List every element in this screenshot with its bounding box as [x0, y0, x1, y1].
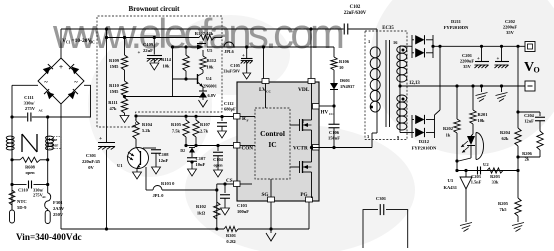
diode D102	[189, 148, 195, 153]
svg-text:1kΩ: 1kΩ	[197, 211, 206, 216]
svg-text:2N6001: 2N6001	[203, 84, 217, 89]
svg-text:C111: C111	[24, 95, 34, 100]
connector terminal L	[11, 205, 13, 210]
wire AC input left rail	[11, 85, 13, 209]
resistor R608 open	[20, 157, 40, 162]
svg-text:10: 10	[339, 65, 344, 70]
pin SG	[268, 197, 275, 202]
node C310 right	[46, 183, 49, 186]
svg-text:12,13: 12,13	[409, 81, 420, 86]
svg-text:R205: R205	[498, 201, 509, 206]
svg-text:JPL6: JPL6	[224, 49, 234, 54]
capacitor C301 bulk	[98, 142, 115, 144]
pin VDL	[308, 79, 315, 84]
wire VDL riser	[310, 29, 312, 79]
capacitor C204	[516, 110, 519, 113]
svg-text:7k5: 7k5	[499, 207, 507, 212]
wire CON internal	[240, 145, 255, 147]
resistor R110	[124, 70, 126, 81]
svg-text:1: 1	[368, 39, 370, 44]
node R608 left	[10, 158, 13, 161]
resistor R205	[515, 198, 521, 216]
svg-text:R203: R203	[490, 174, 501, 179]
ground C202	[501, 86, 503, 92]
pin PG	[306, 197, 313, 202]
capacitor C102 resonant	[343, 24, 345, 35]
node secondary phase dot upper	[402, 49, 405, 52]
node HVcc	[333, 90, 335, 125]
svg-text:IC: IC	[268, 140, 276, 149]
capacitor C108	[143, 147, 156, 149]
diode D211 dual	[411, 35, 413, 58]
node C111 right	[46, 115, 49, 118]
svg-text:1k: 1k	[446, 133, 451, 138]
svg-text:100uF: 100uF	[237, 209, 249, 214]
svg-text:C112: C112	[224, 101, 234, 106]
svg-text:VDL: VDL	[298, 87, 310, 93]
resistor R104	[134, 114, 137, 117]
wire U4 emitter feed	[172, 47, 174, 97]
svg-text:Vin=340-400Vdc: Vin=340-400Vdc	[16, 232, 82, 242]
node SG rail	[269, 227, 272, 230]
svg-text:F301: F301	[53, 200, 63, 205]
svg-text:R111: R111	[108, 100, 118, 105]
svg-text:C102: C102	[350, 5, 361, 10]
svg-text:AC: AC	[39, 109, 44, 113]
node C111 left	[10, 115, 13, 118]
svg-text:2200uF: 2200uF	[503, 25, 518, 30]
svg-text:C103: C103	[237, 203, 248, 208]
svg-text:R103 0: R103 0	[161, 181, 175, 186]
transformer center tap	[399, 82, 401, 95]
wire output - rail	[430, 85, 525, 87]
svg-text:R106: R106	[339, 59, 350, 64]
terminal Vo-	[525, 81, 535, 91]
svg-text:275V: 275V	[25, 106, 36, 111]
ground C201	[481, 86, 483, 92]
wire filter to resistor row	[11, 150, 13, 183]
svg-text:C107: C107	[196, 156, 207, 161]
svg-text:1.5nF: 1.5nF	[471, 180, 482, 185]
svg-text:SG: SG	[262, 192, 269, 198]
wire SG drop	[270, 202, 272, 229]
diode D212 dual	[411, 115, 413, 138]
svg-text:Filter: Filter	[48, 143, 59, 148]
svg-text:R107 44k: R107 44k	[195, 31, 214, 36]
wire VCTR to primary	[371, 133, 373, 148]
svg-text:10uF: 10uF	[196, 162, 206, 167]
svg-text:Line: Line	[49, 137, 58, 142]
capacitor C112	[220, 115, 223, 118]
ground C107	[188, 169, 197, 176]
bridge diode top-left	[43, 64, 53, 74]
zener diode 6.8V	[202, 87, 204, 91]
capacitor C105	[245, 45, 248, 48]
wire hop JPL6	[224, 42, 234, 47]
brownout circuit box	[97, 16, 222, 127]
wire CS internal	[240, 183, 252, 185]
svg-text:AC: AC	[42, 195, 46, 199]
svg-text:10k: 10k	[478, 118, 486, 123]
svg-text:R110: R110	[109, 83, 120, 88]
ground C103	[221, 208, 230, 215]
wire D212 riser	[439, 46, 441, 110]
svg-text:Brownout circuit: Brownout circuit	[129, 5, 181, 13]
optocoupler U2	[472, 124, 474, 134]
svg-text:2200uF: 2200uF	[460, 59, 475, 64]
capacitor C107	[191, 153, 193, 158]
svg-text:FYP2010DN: FYP2010DN	[444, 25, 469, 30]
node primary phase dot	[370, 106, 373, 109]
pin RT	[234, 114, 241, 120]
capacitor C202	[501, 46, 503, 61]
wire LVcc drop	[262, 45, 265, 48]
svg-text:O: O	[534, 66, 540, 75]
svg-text:0.2Ω: 0.2Ω	[226, 239, 236, 244]
ground primary arrow	[270, 229, 272, 233]
svg-text:R102: R102	[196, 204, 207, 209]
svg-text:C109: C109	[143, 42, 154, 47]
wire JPL0	[145, 167, 147, 190]
svg-text:220uF/45: 220uF/45	[82, 159, 101, 164]
resistor R204	[517, 46, 519, 128]
svg-text:33k: 33k	[492, 180, 499, 185]
svg-text:R201: R201	[478, 112, 489, 117]
svg-text:CC: CC	[329, 112, 334, 116]
wire bridge left vertex to left rail	[12, 84, 38, 86]
resistor R101 shunt	[224, 226, 238, 231]
optocoupler U1	[128, 148, 149, 169]
svg-text:DC: DC	[90, 41, 96, 45]
svg-text:U2: U2	[483, 162, 489, 167]
svg-text:D2: D2	[180, 149, 185, 153]
svg-text:680pF: 680pF	[224, 107, 236, 112]
resistor R111	[121, 98, 127, 113]
resistor R112	[202, 50, 204, 56]
bridge diode bottom-left	[44, 89, 54, 99]
ground zener	[202, 98, 204, 101]
transformer T1 box	[365, 31, 407, 140]
resistor R203	[487, 168, 503, 173]
svg-text:CS: CS	[226, 178, 233, 184]
svg-text:R204: R204	[500, 130, 511, 135]
svg-text:5.2k: 5.2k	[142, 128, 151, 133]
svg-text:33uF/50V: 33uF/50V	[223, 69, 240, 74]
svg-text:R114: R114	[161, 57, 172, 62]
wire RT internal	[240, 116, 255, 118]
transformer secondary lower	[399, 95, 401, 130]
resistor R102	[214, 202, 220, 219]
shunt regulator KA431	[457, 170, 518, 172]
pin LVcc	[262, 79, 269, 84]
node bus VDL riser	[309, 27, 312, 30]
svg-text:C301: C301	[376, 196, 387, 201]
svg-text:12nF: 12nF	[159, 158, 169, 163]
resistor R106b 2.7k	[194, 115, 197, 118]
capacitor C201	[481, 46, 483, 61]
ground C105	[243, 73, 251, 79]
primary ground rail	[61, 228, 224, 230]
fuse F301	[47, 185, 49, 194]
svg-text:CON: CON	[242, 146, 254, 152]
wire LVcc supply	[173, 46, 198, 48]
svg-text:R105: R105	[171, 122, 182, 127]
svg-text:1M5: 1M5	[110, 64, 119, 69]
svg-text:=10-20V: =10-20V	[72, 38, 92, 44]
svg-text:EC35: EC35	[382, 26, 394, 31]
wire divider tap to zener	[125, 96, 201, 98]
svg-text:+: +	[138, 51, 141, 56]
ground opto U1	[136, 168, 138, 172]
wire bridge bottom to ground rail	[60, 104, 62, 229]
svg-text:2A5V: 2A5V	[53, 206, 65, 211]
svg-text:6.8V: 6.8V	[208, 93, 217, 98]
wire 400V bus	[61, 28, 344, 30]
svg-text:D212: D212	[419, 139, 430, 144]
node R608 right	[46, 158, 49, 161]
svg-text:R109: R109	[109, 58, 120, 63]
capacitor C203	[477, 167, 479, 175]
wire VCTR out	[310, 146, 313, 149]
node divider top	[123, 36, 126, 39]
transistor Q-high MOSFET	[311, 83, 313, 120]
pin CON	[234, 143, 241, 149]
svg-text:250V: 250V	[53, 212, 64, 217]
svg-text:47k: 47k	[109, 106, 117, 111]
thermistor NTC 5D-9	[9, 190, 15, 205]
bridge diode bottom-right	[68, 89, 78, 99]
resistor R206	[539, 121, 541, 131]
svg-text:C202: C202	[505, 19, 516, 24]
transistor U4	[173, 78, 198, 80]
wire CON pin net	[190, 145, 233, 147]
svg-text:D601: D601	[340, 78, 351, 83]
node bus brownout tap	[105, 27, 108, 30]
resistor R109	[124, 38, 126, 56]
svg-text:HV: HV	[321, 110, 329, 116]
bridge diode top-right	[69, 64, 79, 74]
ground C112	[218, 131, 227, 138]
svg-text:D211: D211	[451, 19, 462, 24]
wire bridge right vertex loop	[32, 85, 91, 117]
svg-text:R104: R104	[142, 122, 153, 127]
capacitor C111	[27, 113, 29, 122]
svg-text:C203: C203	[471, 174, 482, 179]
svg-text:62k: 62k	[501, 136, 509, 141]
svg-text:VCTR: VCTR	[293, 146, 308, 152]
svg-text:330n/: 330n/	[24, 101, 35, 106]
svg-text:R301: R301	[226, 233, 237, 238]
capacitor C103	[224, 184, 226, 193]
pin CS	[234, 181, 241, 187]
svg-text:+: +	[99, 136, 102, 142]
wire bulk cap riser	[106, 29, 108, 142]
svg-text:PG: PG	[300, 192, 307, 198]
terminal Vo+	[525, 42, 535, 52]
svg-text:Control: Control	[260, 129, 285, 138]
svg-text:open: open	[25, 170, 35, 175]
svg-text:10k: 10k	[207, 65, 215, 70]
op-amp U6 control IC block	[237, 82, 319, 201]
ground KA431	[460, 223, 472, 226]
svg-text:R202: R202	[443, 126, 454, 131]
node divider tap	[123, 95, 126, 98]
svg-text:U1: U1	[117, 163, 123, 168]
svg-text:R112: R112	[207, 58, 218, 63]
svg-text:2.7k: 2.7k	[200, 129, 209, 134]
svg-text:R206: R206	[522, 151, 533, 156]
resistor R201	[472, 86, 474, 110]
svg-text:+: +	[59, 62, 63, 71]
transformer primary	[376, 29, 378, 47]
capacitor C401 Y-cap	[363, 210, 378, 248]
resistor R106	[333, 47, 335, 57]
svg-text:22nF/630V: 22nF/630V	[344, 11, 367, 16]
wire brownout top rail	[107, 37, 200, 39]
ground R111	[124, 113, 126, 116]
svg-text:R107: R107	[200, 122, 211, 127]
capacitor C106	[329, 123, 340, 125]
svg-text:NTC: NTC	[17, 199, 27, 204]
pin HVcc	[313, 104, 320, 110]
wire output + rail	[433, 45, 525, 47]
wire CS pin net	[217, 183, 233, 185]
svg-text:7.5k: 7.5k	[172, 129, 181, 134]
capacitor C310	[12, 184, 27, 186]
resistor R202	[456, 86, 458, 119]
node C310 left	[10, 183, 13, 186]
svg-text:FYP2010DN: FYP2010DN	[412, 146, 437, 151]
svg-text:5D-9: 5D-9	[17, 205, 27, 210]
svg-text:10k: 10k	[162, 64, 170, 69]
svg-text:22uF: 22uF	[143, 48, 153, 53]
resistor R114	[184, 45, 187, 48]
transistor Q-low MOSFET	[311, 148, 313, 163]
svg-text:0V: 0V	[88, 165, 94, 170]
svg-text:C310: C310	[18, 188, 29, 193]
resistor R105	[184, 115, 187, 118]
svg-text:C1: C1	[66, 41, 71, 45]
svg-text:JPL 0: JPL 0	[153, 193, 165, 198]
pin VCTR	[313, 145, 320, 151]
svg-text:1N4937: 1N4937	[340, 84, 355, 89]
svg-text:C108: C108	[159, 152, 170, 157]
ground C104	[214, 170, 223, 177]
resistor R107	[199, 35, 214, 40]
wire bridge top riser	[60, 29, 62, 58]
connector terminal N	[47, 209, 49, 211]
capacitor C109	[153, 36, 156, 39]
svg-text:U4: U4	[206, 76, 212, 81]
svg-text:F: F	[247, 119, 249, 123]
wire PG drop	[308, 202, 310, 229]
wire RT pin net	[136, 115, 233, 118]
svg-text:C204: C204	[524, 113, 535, 118]
svg-text:35V: 35V	[506, 30, 515, 35]
bridge rectifier	[38, 58, 84, 104]
capacitor C104	[217, 146, 219, 152]
svg-text:KA431: KA431	[444, 185, 458, 190]
wire HVcc	[319, 105, 334, 107]
svg-text:C201: C201	[462, 53, 473, 58]
transformer core	[385, 40, 387, 127]
diode D601	[333, 70, 335, 83]
svg-text:C105: C105	[230, 63, 241, 68]
svg-text:R608: R608	[25, 165, 36, 170]
transistor U5	[197, 45, 204, 50]
svg-text:U5: U5	[207, 48, 213, 53]
svg-text:12nF: 12nF	[524, 119, 534, 124]
svg-text:U3: U3	[448, 178, 454, 183]
line filter	[11, 117, 13, 136]
svg-text:C301: C301	[86, 153, 97, 158]
svg-text:CC: CC	[266, 90, 271, 94]
svg-text:35V: 35V	[463, 64, 472, 69]
svg-text:1M5: 1M5	[110, 89, 119, 94]
wire LVcc internal	[265, 84, 267, 109]
ground R205	[512, 223, 524, 226]
wire SG internal	[270, 179, 272, 197]
